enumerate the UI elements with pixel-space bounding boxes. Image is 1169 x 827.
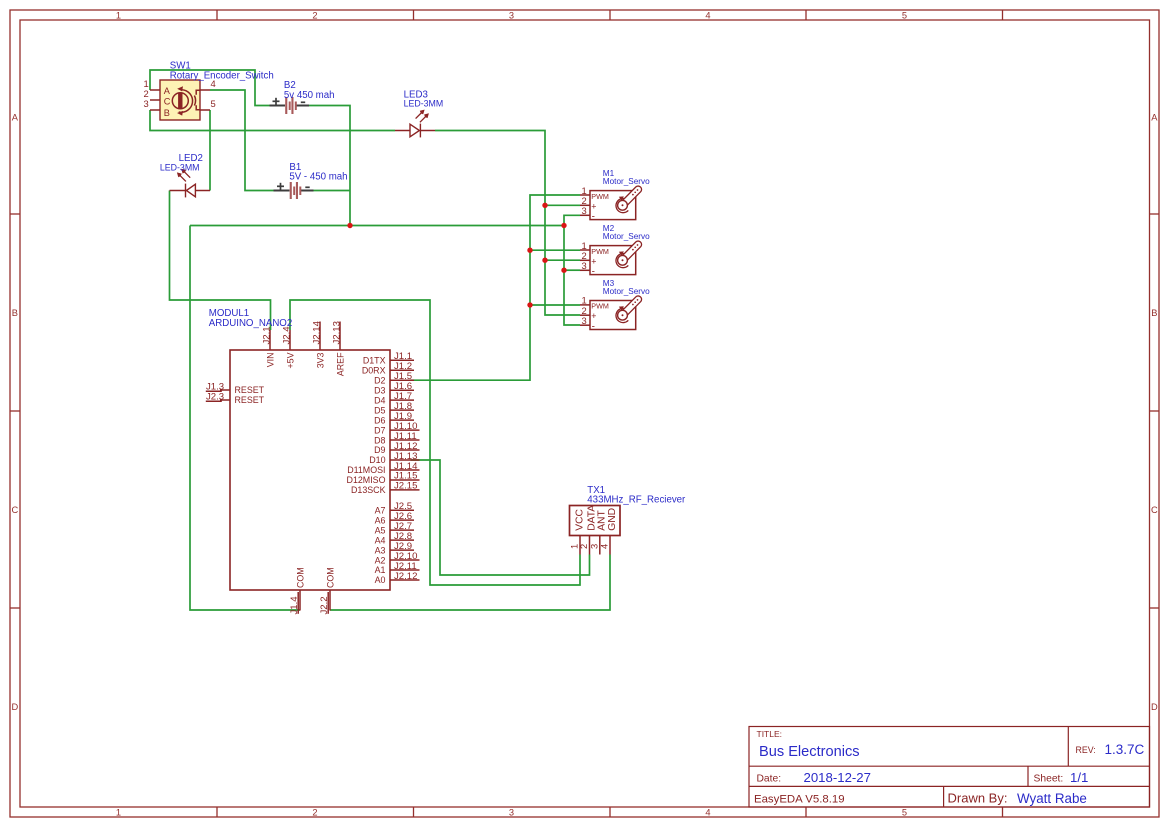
svg-text:J2.14: J2.14 [311,320,322,344]
wire ground rail left segment [190,226,300,611]
wire D10 to TX1 DATA [411,460,590,575]
motor servo M2 [580,240,642,278]
title block texts [754,729,1145,806]
row letters right [1151,113,1158,713]
motor servo M3 [580,295,642,333]
column numbers bottom [116,808,907,818]
TX1 pin 1 VCC [579,536,581,555]
TX1 pin 4 GND [609,536,611,555]
bottom net label underlines [298,592,328,614]
top pin 3V3 [319,322,321,351]
bottom pin COM 1 [299,590,301,611]
svg-text:A6: A6 [375,515,386,525]
svg-text:2018-12-27: 2018-12-27 [804,770,871,785]
svg-text:Date:: Date: [757,773,782,784]
svg-text:J2.15: J2.15 [394,481,417,492]
svg-text:3V3: 3V3 [315,352,325,368]
svg-text:A4: A4 [375,535,386,545]
svg-text:A2: A2 [375,555,386,565]
svg-text:VCC: VCC [574,508,585,530]
bottom pin names COM COM [295,567,335,588]
B1 plates [290,182,302,199]
junction dot M1 pin2 [542,203,547,208]
svg-text:D11MOSI: D11MOSI [347,465,385,475]
svg-text:D3: D3 [374,385,385,395]
arduino nano MODUL1 [206,320,420,614]
junction dot M2 pin2 [542,258,547,263]
wire B2 minus to ground junction [309,106,350,226]
wire M2 pin3 branch [564,269,580,271]
B2 leads [270,105,286,107]
right side digital pins [390,360,420,580]
svg-text:D6: D6 [374,415,385,425]
svg-text:A1: A1 [375,565,386,575]
wire M3 pin1 branch [530,304,580,306]
rotary encoder switch SW1 [144,78,216,120]
left pin names RESET RESET [235,385,265,405]
wire +5V pin drop [290,300,580,585]
junction dot M2 pin1 [527,248,532,253]
svg-text:A: A [1151,113,1158,123]
svg-text:D12MISO: D12MISO [347,475,386,485]
svg-text:5V - 450 mah: 5V - 450 mah [289,172,347,183]
SW1 pin numbers [144,78,216,109]
svg-text:A0: A0 [375,575,386,585]
battery B2 [270,97,310,114]
junction dot ground rail at B1 B2 [347,223,352,228]
LED2 emission arrows [180,172,190,182]
svg-text:J2.1: J2.1 [261,326,272,344]
svg-text:Bus Electronics: Bus Electronics [759,744,860,760]
svg-text:D5: D5 [374,405,385,415]
top net labels [261,320,342,344]
junction dot M2 pin3 [561,268,566,273]
svg-text:D4: D4 [374,395,385,405]
svg-text:D10: D10 [369,455,385,465]
svg-text:A3: A3 [375,545,386,555]
bottom pin COM 2 [329,590,331,611]
motor servo M1 [580,185,642,223]
svg-text:2: 2 [312,10,317,20]
LED3 emission arrows [416,113,426,123]
left net label underlines [206,391,222,401]
svg-text:A5: A5 [375,525,386,535]
svg-text:J2.12: J2.12 [394,571,417,582]
SW1 terminal letters A C B [164,86,171,118]
right net labels J1.1..J2.12 [394,351,418,582]
svg-text:D: D [1151,702,1158,712]
B1 plus minus signs [277,183,310,190]
svg-text:5: 5 [902,808,907,818]
row letters left [11,113,18,713]
column numbers top [116,10,907,20]
TX1 pin numbers 1 2 3 4 [569,544,610,549]
svg-text:A7: A7 [375,505,386,515]
junction dot minus rail end [561,223,566,228]
battery B1 [274,182,314,199]
svg-text:B: B [1151,308,1157,318]
svg-text:4: 4 [705,10,710,20]
wire B1 minus [314,190,351,192]
wire SW1 pin5 to LED2 anode [209,110,211,191]
SW1 pin4 inner contact [196,90,200,95]
wire M1 pin2 branch [545,204,580,206]
svg-text:GND: GND [607,508,618,531]
svg-text:LED-3MM: LED-3MM [404,99,444,109]
svg-text:3: 3 [144,98,149,109]
wire SW1 pin1 to B2 plus [150,70,270,106]
svg-text:Wyatt Rabe: Wyatt Rabe [1017,791,1087,806]
svg-text:4: 4 [705,808,710,818]
svg-text:+5V: +5V [285,352,295,368]
wire negative rail horizontal [190,225,564,227]
wire SW1 pin3 to LED3 anode [150,110,395,131]
svg-text:2: 2 [312,808,317,818]
top pin names [265,352,345,376]
svg-text:D2: D2 [374,375,385,385]
junction dot M3 pin1 [527,302,532,307]
svg-text:C: C [1151,505,1158,515]
LED2 leads and diode [170,190,186,192]
top pin VIN [269,330,271,350]
bottom net labels J1.4 J2.2 [289,596,330,615]
TX1 pin 3 ANT [599,536,601,555]
wire motor minus column [564,215,580,325]
svg-text:TITLE:: TITLE: [757,729,783,739]
column tick marks bottom [217,807,1003,817]
MODUL1 body [230,350,390,590]
wire ground rail right segment to TX1 GND [330,555,610,611]
SW1 rotation arc with arrows [179,90,193,113]
row tick marks right [1150,214,1160,608]
LED3 [395,110,435,138]
SW1 rotor circle [172,93,188,109]
svg-text:B: B [164,108,170,118]
SW1 wiper contact [194,96,195,106]
SW1 rotor slot bar [178,93,182,109]
svg-text:3: 3 [509,10,514,20]
LED2 [170,169,211,198]
svg-text:433MHz_RF_Reciever: 433MHz_RF_Reciever [587,495,686,506]
wire M1 pin1 to D2 [411,195,581,380]
SW1 pins 1 2 3 4 5 [150,90,210,110]
title block outline [749,727,1150,808]
left pin RESET 1 [220,389,230,391]
column tick marks top [217,10,1003,20]
svg-text:EasyEDA V5.8.19: EasyEDA V5.8.19 [754,794,845,806]
svg-text:Sheet:: Sheet: [1034,773,1064,784]
svg-text:Rotary_Encoder_Switch: Rotary_Encoder_Switch [170,71,274,82]
wire LED3 cathode to M3 pin2 [435,131,580,316]
svg-text:LED-3MM: LED-3MM [160,163,200,173]
svg-text:C: C [11,505,18,515]
B1 leads [274,190,290,192]
svg-text:Motor_Servo: Motor_Servo [603,232,650,241]
wire LED2 cathode to VIN [170,191,271,331]
wire M2 pin1 branch [530,249,580,251]
svg-text:5: 5 [211,98,216,109]
wire SW1 pin4 to B1 plus [210,90,274,191]
svg-text:VIN: VIN [265,353,275,368]
svg-text:5v 450 mah: 5v 450 mah [284,90,335,101]
TX1 body [570,506,621,536]
svg-text:1: 1 [116,808,121,818]
svg-text:COM: COM [325,567,335,588]
svg-text:J2.13: J2.13 [331,321,342,344]
svg-text:Drawn By:: Drawn By: [948,791,1008,806]
svg-text:A: A [164,86,171,96]
SW1 body [160,80,200,120]
svg-text:D1TX: D1TX [363,356,386,366]
LED3 leads and diode [395,130,410,132]
row tick marks left [10,214,20,608]
svg-text:C: C [164,97,171,107]
svg-text:D0RX: D0RX [362,365,386,375]
svg-text:1.3.7C: 1.3.7C [1105,742,1145,757]
svg-text:D: D [11,702,18,712]
svg-text:5: 5 [902,10,907,20]
svg-text:D7: D7 [374,425,385,435]
svg-text:AREF: AREF [335,352,345,376]
SW1 pin5 inner contact [196,105,200,110]
svg-text:A: A [12,113,19,123]
wire M2 pin2 branch [545,259,580,261]
right pin names D1TX..D13SCK A7..A0 [347,356,386,586]
svg-text:1/1: 1/1 [1070,770,1088,785]
svg-text:1: 1 [116,10,121,20]
TX1 433MHz RF receiver [569,505,621,555]
svg-text:Motor_Servo: Motor_Servo [603,177,650,186]
svg-text:COM: COM [295,567,305,588]
svg-text:REV:: REV: [1076,745,1096,755]
svg-text:RESET: RESET [235,385,265,395]
svg-text:B: B [12,308,18,318]
svg-text:3: 3 [509,808,514,818]
left pin RESET 2 [220,399,230,401]
svg-text:ARDUINO_NANO2: ARDUINO_NANO2 [209,318,292,329]
TX1 pin 2 DATA [589,536,591,555]
svg-text:4: 4 [599,544,610,549]
left net labels J1.3 J2.3 [206,381,224,402]
svg-text:RESET: RESET [235,395,265,405]
B2 plus minus signs [273,98,306,105]
svg-text:Motor_Servo: Motor_Servo [603,287,650,296]
svg-text:D13SCK: D13SCK [351,485,386,495]
svg-text:D9: D9 [374,445,385,455]
top pin +5V [289,330,291,350]
TX1 pin names VCC DATA ANT GND [574,505,618,531]
B2 plates [285,97,297,114]
top pin AREF [339,322,341,351]
svg-text:D8: D8 [374,435,385,445]
